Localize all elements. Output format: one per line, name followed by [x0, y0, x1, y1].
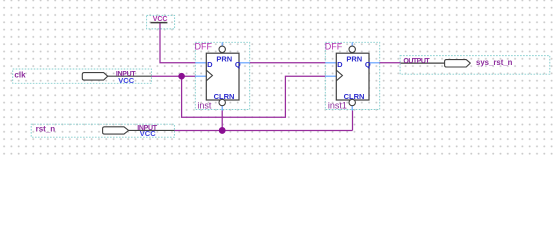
- pin stub CLRN: [351, 106, 353, 111]
- wire VCC net to D input of inst: [160, 23, 195, 63]
- flip-flop body: [206, 53, 239, 100]
- svg-text:OUTPUT: OUTPUT: [403, 58, 430, 65]
- selection box around input pin clk: [13, 69, 152, 83]
- pin stub Q: [239, 62, 250, 64]
- PRN inversion bubble: [349, 46, 355, 52]
- pin lead line: [108, 75, 152, 77]
- wire clk net to clock input of inst: [151, 75, 195, 77]
- pin stub Q: [369, 62, 380, 64]
- D flip-flop inst (DFF): [195, 41, 250, 110]
- pin stub PRN: [221, 42, 223, 46]
- svg-text:PRN: PRN: [216, 54, 232, 63]
- svg-text:sys_rst_n: sys_rst_n: [476, 58, 513, 67]
- input pin rst_n: [36, 125, 175, 138]
- power symbol VCC: [151, 16, 168, 23]
- svg-text:Q: Q: [235, 60, 241, 69]
- selection box around flip-flop inst1: [325, 42, 379, 109]
- svg-text:DFF: DFF: [325, 42, 343, 52]
- pin stub clock: [325, 75, 336, 77]
- svg-text:D: D: [207, 60, 213, 69]
- svg-text:PRN: PRN: [346, 54, 362, 63]
- svg-text:CLRN: CLRN: [214, 92, 235, 101]
- selection box around input pin rst_n: [31, 124, 174, 137]
- svg-text:VCC: VCC: [140, 129, 156, 138]
- pin arrow body: [103, 127, 129, 134]
- svg-text:D: D: [337, 60, 343, 69]
- svg-text:clk: clk: [14, 71, 26, 80]
- VCC bar: [151, 22, 168, 24]
- selection box around output pin sys_rst_n: [400, 56, 550, 75]
- selection box around VCC symbol: [147, 15, 175, 29]
- pin stub clock: [195, 75, 206, 77]
- CLRN inversion bubble: [349, 99, 355, 105]
- clock edge triangle: [336, 70, 342, 81]
- pin lead line: [129, 129, 175, 131]
- wire Q of inst to D of inst1: [250, 62, 326, 64]
- pin stub D: [195, 62, 206, 64]
- junction on rst_n net: [219, 127, 226, 134]
- svg-text:VCC: VCC: [118, 76, 134, 85]
- output pin sys_rst_n: [401, 58, 513, 67]
- PRN inversion bubble: [219, 46, 225, 52]
- selection box around flip-flop inst: [195, 42, 249, 109]
- flip-flop body: [336, 53, 369, 100]
- svg-text:inst: inst: [197, 100, 212, 110]
- D flip-flop inst1 (DFF): [325, 42, 380, 111]
- pin arrow body: [82, 73, 107, 81]
- pin stub CLRN: [221, 106, 223, 111]
- svg-text:Q: Q: [365, 60, 371, 69]
- pin lead line: [401, 62, 445, 64]
- pin stub PRN: [351, 42, 353, 46]
- pin arrow body: [445, 60, 471, 67]
- wire rst_n net to CLRN of inst: [221, 111, 223, 131]
- svg-text:rst_n: rst_n: [36, 125, 56, 134]
- junction on clk net: [178, 73, 185, 80]
- pin stub D: [325, 62, 336, 64]
- wire rst_n net to CLRN of inst1: [352, 111, 354, 131]
- wire rst_n net horizontal run: [174, 129, 352, 131]
- wire clk net branch to clock input of inst1: [182, 76, 326, 117]
- input pin clk: [14, 71, 151, 86]
- svg-text:DFF: DFF: [195, 41, 213, 51]
- CLRN inversion bubble: [219, 99, 225, 105]
- wire Q of inst1 to output pin: [380, 62, 401, 64]
- svg-text:inst1: inst1: [328, 100, 347, 110]
- clock edge triangle: [206, 70, 212, 81]
